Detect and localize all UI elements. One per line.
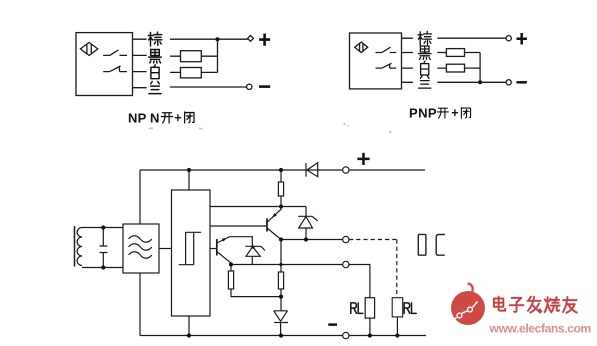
svg-text:+: +	[174, 111, 181, 125]
svg-text:NP N: NP N	[128, 110, 160, 125]
svg-text:www.elecfans.com: www.elecfans.com	[489, 321, 591, 335]
svg-text:PNP: PNP	[409, 105, 437, 120]
svg-text:+: +	[451, 106, 458, 120]
